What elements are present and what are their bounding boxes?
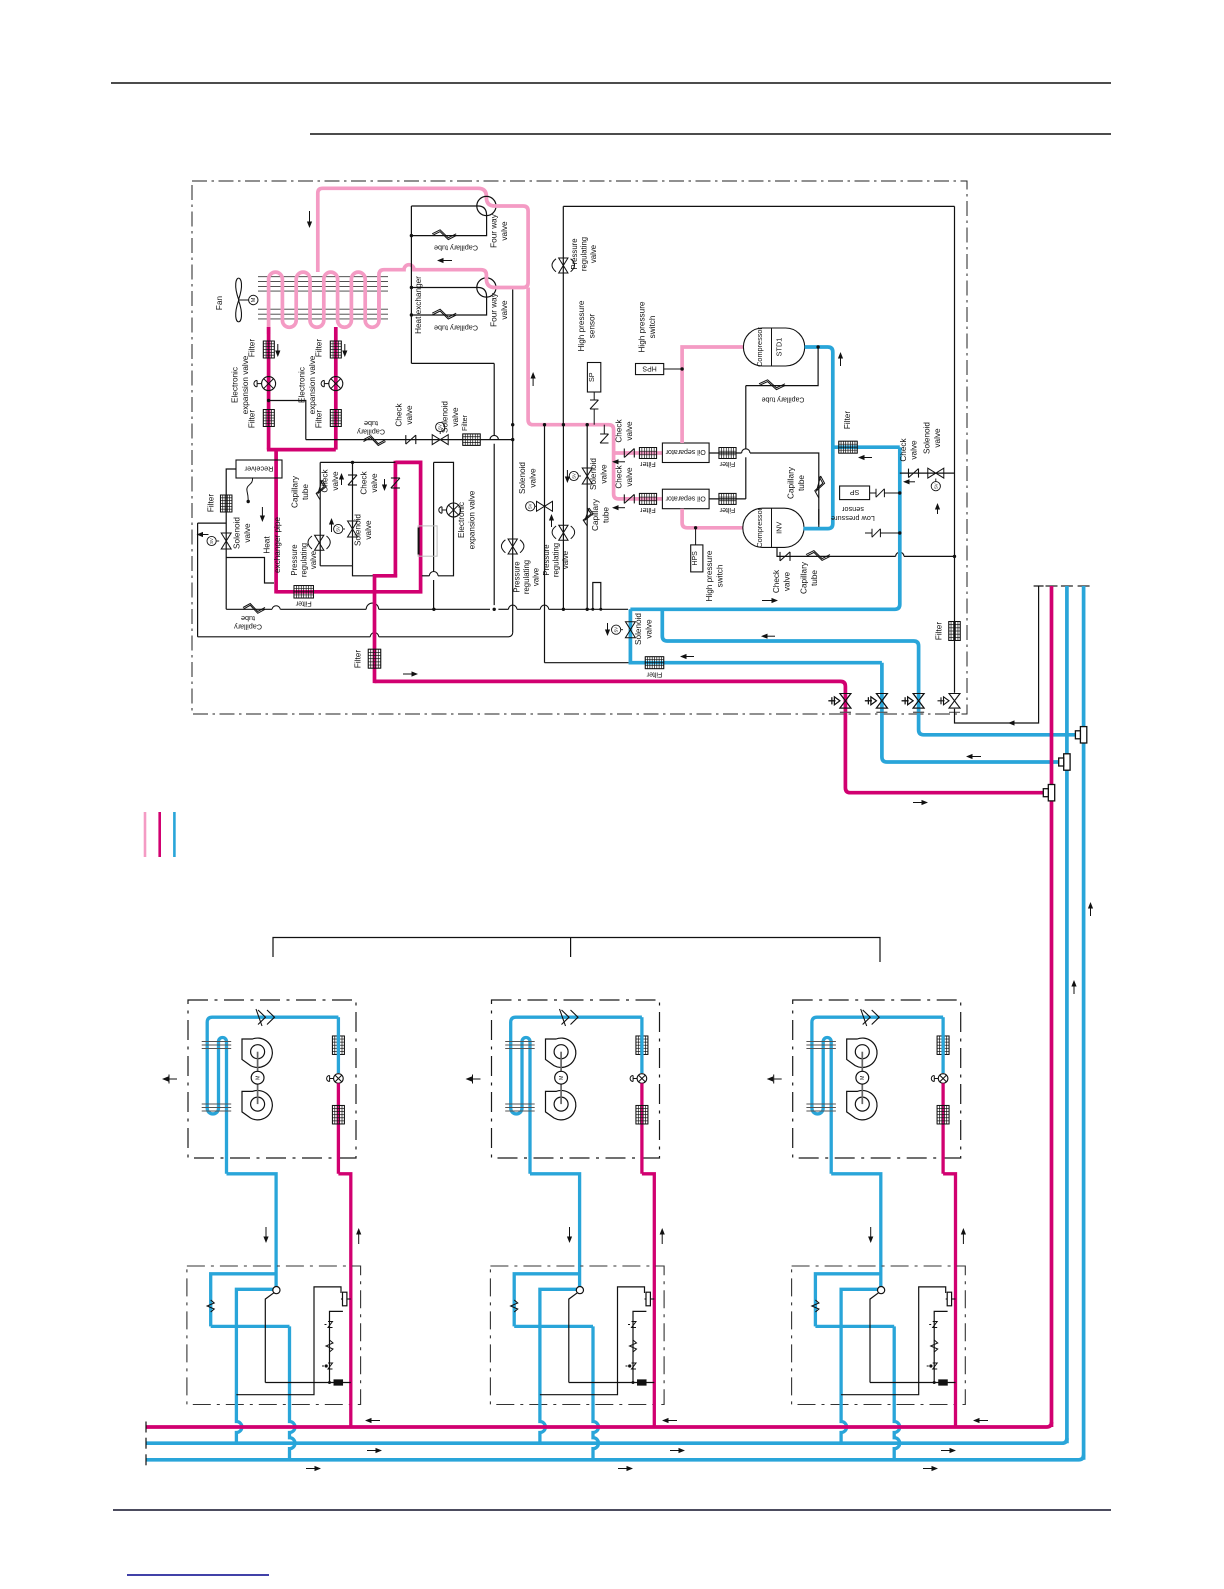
branch cyan left loop xyxy=(211,1274,276,1327)
subcool heat exchanger plate xyxy=(418,526,437,556)
svg-text:switch: switch xyxy=(716,564,725,587)
indoor fan 1 xyxy=(242,1038,272,1067)
black: equalizer out to riser xyxy=(955,586,1039,723)
svg-text:Compressor: Compressor xyxy=(755,327,764,367)
oil trap stub on suction header xyxy=(593,583,601,610)
indoor filter upper xyxy=(636,1036,648,1055)
branch black: node to left valve column xyxy=(870,1293,879,1383)
receiver pigtail xyxy=(247,478,253,500)
branch node xyxy=(878,1287,885,1294)
cyan: main suction drop xyxy=(630,447,899,609)
cyan: branch B down through valve B xyxy=(882,663,1059,762)
svg-text:STD1: STD1 xyxy=(775,338,784,357)
svg-text:valve: valve xyxy=(910,440,919,460)
filter (branch1 upper) xyxy=(263,341,274,358)
branch cyan drop A to gas bus xyxy=(841,1326,847,1443)
wire: to suction drop xyxy=(411,362,494,364)
indoor filter upper xyxy=(332,1036,344,1055)
arrow left between valves xyxy=(437,258,444,263)
indoor coil (cyan hairpin) xyxy=(511,1017,642,1174)
top rule 2 xyxy=(310,133,1111,135)
indoor cyan drop to EEV xyxy=(941,1017,944,1073)
black: STD1 oil return capillary xyxy=(746,347,818,386)
indoor coil fins xyxy=(505,1041,535,1043)
black top header xyxy=(563,205,954,207)
svg-text:Capillary tube: Capillary tube xyxy=(434,323,478,332)
air flow arrow xyxy=(162,1076,169,1081)
arrows on liquid bus xyxy=(365,1418,372,1423)
indoor filter lower xyxy=(937,1105,949,1124)
indoor expansion valve xyxy=(334,1074,344,1084)
svg-text:valve: valve xyxy=(331,471,340,491)
branch black: node to left valve column xyxy=(265,1293,274,1383)
magenta U: liquid line to check valve 2 xyxy=(276,462,421,591)
high pressure sensor SP box xyxy=(587,363,600,393)
filter after separator 2 xyxy=(719,493,736,504)
indoor expansion valve xyxy=(938,1074,948,1084)
svg-text:valve: valve xyxy=(645,619,654,639)
arrow left bypass xyxy=(903,479,910,484)
capillary vertical to INV discharge xyxy=(815,476,823,498)
branch solenoid glyph 1 xyxy=(628,1324,630,1326)
wire SP to header with fusible link xyxy=(593,392,595,400)
arrow left at receiver SV xyxy=(197,532,204,537)
capillary vertical on that column xyxy=(583,508,591,526)
flow double chevron on indoor inlet xyxy=(256,1009,275,1026)
svg-text:Check: Check xyxy=(395,402,404,426)
heat exchanger fins xyxy=(258,276,388,278)
indoor fan 1 xyxy=(546,1038,576,1067)
indoor filter upper xyxy=(937,1036,949,1055)
svg-text:SV: SV xyxy=(614,627,619,633)
pressure regulating valve 2 xyxy=(559,525,568,533)
svg-text:valve: valve xyxy=(529,468,538,488)
legend magenta xyxy=(158,812,161,857)
svg-text:valve: valve xyxy=(500,221,509,241)
electronic expansion valve (subcool) xyxy=(447,503,461,517)
svg-text:Capillary tube: Capillary tube xyxy=(761,395,804,402)
magenta: liquid line to service valve A xyxy=(375,681,1044,792)
indoor fan 2 xyxy=(242,1090,272,1119)
branch cyan drop A to gas bus xyxy=(540,1326,546,1443)
wire: suction drop x=494.2 xyxy=(493,363,495,435)
capillary tube vertical xyxy=(316,480,324,500)
footer link line xyxy=(127,1574,269,1576)
svg-text:switch: switch xyxy=(648,315,657,338)
svg-text:valve: valve xyxy=(532,568,541,586)
svg-text:Check: Check xyxy=(321,468,330,492)
capillary on branch loop xyxy=(207,1300,214,1312)
arrow left sep2 xyxy=(612,505,619,510)
svg-text:valve: valve xyxy=(364,520,373,540)
arrow right on suction header xyxy=(772,598,779,603)
relief stub on header xyxy=(603,425,605,434)
filter (branch1 lower) xyxy=(263,410,274,427)
cyan: suction branch with solenoid xyxy=(630,609,882,662)
branch cyan drop B to suction bus xyxy=(593,1326,599,1459)
black sub-block top wire xyxy=(320,461,395,463)
pipe: liquid down to receiver line (magenta) xyxy=(274,450,278,594)
cyan riser 1 xyxy=(1065,586,1069,1443)
svg-text:valve: valve xyxy=(500,300,509,320)
svg-text:Filter: Filter xyxy=(354,650,363,668)
indoor filter lower xyxy=(636,1105,648,1124)
arrow down cyan interconnect xyxy=(868,1237,873,1244)
four way valve 1 xyxy=(477,196,496,215)
branch cyan inlet xyxy=(578,1284,581,1287)
svg-text:Fan: Fan xyxy=(215,295,224,310)
branch cyan drop B to suction bus xyxy=(290,1326,296,1459)
arrow up magenta interconnect xyxy=(356,1228,361,1235)
filter on magenta drop xyxy=(368,649,381,668)
arrow up at cyan U xyxy=(838,352,843,359)
black: separator1 row to vertical capillary xyxy=(709,452,742,454)
wire: four way valve 2 S-port column xyxy=(512,290,514,633)
compressor STD1 xyxy=(743,328,804,366)
wire SP2 to suction xyxy=(870,492,876,494)
filter before oil separator 1 xyxy=(639,448,656,459)
wire: valve1 left port xyxy=(411,205,479,207)
branch cyan node link xyxy=(236,1289,273,1326)
pink: STD1 discharge into separator 1 xyxy=(682,347,743,443)
svg-text:expansion valve: expansion valve xyxy=(241,355,250,414)
black: equalizer vertical xyxy=(954,206,956,692)
magenta check valve 2 column xyxy=(394,461,398,578)
svg-text:regulating: regulating xyxy=(580,237,589,271)
svg-text:Filter: Filter xyxy=(248,410,257,428)
oil separator 2 xyxy=(662,489,709,509)
pressure regulating valve on S-port column xyxy=(508,539,517,547)
fusible plug stub 2 xyxy=(865,532,872,534)
indoor fan 2 xyxy=(847,1090,877,1119)
svg-text:expansion valve: expansion valve xyxy=(308,355,317,414)
check valve 1 xyxy=(348,474,357,476)
svg-text:valve: valve xyxy=(561,551,570,569)
air flow arrow xyxy=(767,1076,774,1081)
svg-text:sensor: sensor xyxy=(588,313,597,338)
outdoor unit boundary (dash-dot) xyxy=(192,181,967,714)
svg-text:SV: SV xyxy=(933,483,938,489)
legend cyan xyxy=(173,812,176,857)
arrow down cyan interconnect xyxy=(567,1237,572,1244)
svg-text:tube: tube xyxy=(797,475,806,491)
flow double chevron on indoor inlet xyxy=(560,1009,579,1026)
svg-text:Capillary: Capillary xyxy=(291,475,300,508)
svg-text:regulating: regulating xyxy=(522,560,531,594)
solenoid valve 2 xyxy=(582,468,592,476)
svg-text:High pressure: High pressure xyxy=(577,300,586,351)
svg-text:tube: tube xyxy=(301,484,310,500)
svg-text:Filter: Filter xyxy=(640,460,656,467)
svg-text:valve: valve xyxy=(589,245,598,263)
cyan riser 1 cap xyxy=(1061,585,1073,587)
arrow left sep1 xyxy=(612,459,619,464)
indoor unit boundary xyxy=(793,1000,961,1158)
flow double chevron on indoor inlet xyxy=(861,1009,880,1026)
magenta to filter drop xyxy=(375,576,398,683)
branch cyan left loop xyxy=(514,1274,579,1327)
branch connector to magenta xyxy=(645,1298,655,1300)
indoor coil fins xyxy=(202,1041,232,1043)
svg-text:tube: tube xyxy=(241,614,255,623)
svg-text:regulating: regulating xyxy=(300,543,309,577)
svg-text:Four way: Four way xyxy=(490,213,499,248)
svg-text:Receiver: Receiver xyxy=(244,464,273,473)
svg-text:High pressure: High pressure xyxy=(638,301,647,352)
svg-text:Check: Check xyxy=(615,418,624,442)
electronic expansion valve 1 xyxy=(262,377,276,391)
svg-text:Capillary: Capillary xyxy=(800,561,809,594)
svg-text:Filter: Filter xyxy=(460,414,469,431)
cyan to branch unit xyxy=(831,1174,881,1284)
arrow up on pink header xyxy=(531,372,536,379)
wire: PRV2 column xyxy=(562,425,564,610)
branch connector to magenta xyxy=(946,1298,956,1300)
solenoid valve mid xyxy=(348,521,358,529)
filter after separator 1 xyxy=(719,448,736,459)
indoor coil (cyan hairpin) xyxy=(812,1017,943,1174)
service valve C redraw xyxy=(913,694,924,709)
filter on branch xyxy=(645,657,664,669)
magenta riser xyxy=(1050,586,1054,1427)
svg-text:Heat: Heat xyxy=(263,536,272,554)
indoor coil (cyan hairpin) xyxy=(207,1017,338,1174)
branch valve glyph 2 xyxy=(927,1365,929,1367)
wire: PRV top column xyxy=(562,206,564,424)
cyan: branch tee to valve C xyxy=(662,609,1075,735)
connector fitting liquid xyxy=(1048,785,1054,801)
svg-text:valve: valve xyxy=(370,473,379,493)
connector fitting suction 2 xyxy=(1080,727,1086,743)
indoor magenta to branch unit xyxy=(338,1174,350,1285)
arrow down beside pink drop xyxy=(307,222,312,229)
wire: sub-block bottom xyxy=(320,565,352,567)
svg-text:Capillary: Capillary xyxy=(591,498,600,531)
capillary tube (valve2) xyxy=(432,311,456,319)
heat exchanger coil (pink serpentine) xyxy=(269,272,379,334)
arrow down under receiver xyxy=(260,516,265,523)
svg-text:valve: valve xyxy=(600,464,609,484)
arrow up magenta interconnect xyxy=(961,1228,966,1235)
wire: EEV subcool rectangle xyxy=(434,462,454,575)
black: oil line down to separator 2 row xyxy=(745,386,747,449)
arrow up riser 2 xyxy=(1088,902,1093,909)
filter on equalizer xyxy=(949,622,961,641)
svg-text:valve: valve xyxy=(783,572,792,592)
black: separator2 to filter row xyxy=(709,498,746,500)
svg-text:Solenoid: Solenoid xyxy=(441,401,450,433)
compressor INV xyxy=(743,508,804,547)
solenoid valve hot gas xyxy=(537,501,545,511)
pink: separator 2 to INV compressor xyxy=(682,509,743,528)
branch bracket to indoor units xyxy=(273,938,880,963)
branch cyan drop A to gas bus xyxy=(236,1326,242,1443)
arrow up near PRV xyxy=(329,518,334,525)
svg-text:Heat exchanger: Heat exchanger xyxy=(414,276,423,334)
filter on cyan suction xyxy=(839,441,858,453)
wire: receiver heat exchanger pipe xyxy=(226,558,274,584)
svg-text:valve: valve xyxy=(451,407,460,427)
branch inner valve string xyxy=(633,1311,646,1382)
indoor fan motor xyxy=(560,1052,562,1104)
indoor magenta to branch unit xyxy=(943,1174,955,1285)
branch black right circuit xyxy=(841,1287,946,1395)
arrow left on equalizer xyxy=(1008,720,1015,725)
solenoid valve suction branch xyxy=(625,622,635,630)
legend pink xyxy=(144,812,147,857)
branch solenoid glyph 1 xyxy=(929,1324,931,1326)
gas bus (cyan) xyxy=(146,1438,1067,1443)
branch inner valve string xyxy=(934,1311,947,1382)
svg-text:Pressure: Pressure xyxy=(542,544,551,575)
svg-text:Pressure: Pressure xyxy=(570,238,579,269)
svg-text:Solenoid: Solenoid xyxy=(923,422,932,454)
wire: bypass bottom to EEV mid column xyxy=(198,636,371,638)
branch cyan drop B to suction bus xyxy=(894,1326,900,1459)
svg-text:INV: INV xyxy=(775,522,784,534)
high pressure switch HPS2 xyxy=(691,545,703,572)
branch black bottom to magenta xyxy=(265,1382,351,1384)
svg-text:valve: valve xyxy=(309,551,318,569)
capillary tube (valve1) xyxy=(432,232,456,240)
check valve to oil separator 2 xyxy=(623,494,625,503)
svg-text:M: M xyxy=(860,1075,866,1080)
svg-text:Electronic: Electronic xyxy=(457,502,466,538)
pipe: HX liquid drop 2 (magenta) xyxy=(334,327,338,450)
filter on line xyxy=(463,434,481,446)
cyan: compressor discharge/suction U xyxy=(803,347,832,529)
air flow arrow xyxy=(466,1076,473,1081)
pink jumper between four way valves xyxy=(486,206,528,288)
branch unit boundary xyxy=(490,1266,664,1405)
cyan to branch unit xyxy=(227,1174,277,1284)
pink tee to oil separator row 1 xyxy=(614,451,663,455)
branch node xyxy=(273,1287,280,1294)
branch black right circuit xyxy=(236,1287,341,1395)
wire: check valve 1 column xyxy=(352,462,354,565)
svg-text:Filter: Filter xyxy=(843,411,852,429)
svg-text:Compressor: Compressor xyxy=(755,507,764,547)
svg-text:Solenoid: Solenoid xyxy=(634,613,643,645)
filter on magenta liquid line xyxy=(294,586,314,599)
branch node xyxy=(576,1287,583,1294)
svg-text:sensor: sensor xyxy=(841,505,863,514)
svg-text:Filter: Filter xyxy=(295,599,312,608)
branch valve glyph 2 xyxy=(322,1365,324,1367)
cyan to branch unit xyxy=(530,1174,580,1284)
service valve B redraw xyxy=(876,694,887,709)
suction bus (cyan) xyxy=(146,1455,1084,1460)
wire: check/solenoid/filter line y=439.6 xyxy=(306,439,513,441)
branch solenoid glyph 1 xyxy=(325,1324,327,1326)
solenoid valve xyxy=(432,435,440,445)
arrow up hot gas column xyxy=(549,514,554,521)
strainer solid xyxy=(939,1380,948,1386)
arrow right above magenta liquid out xyxy=(412,671,419,676)
pressure regulating valve (top) xyxy=(559,258,568,266)
svg-text:SV: SV xyxy=(528,503,533,509)
wire: suction header y=609.3 xyxy=(226,608,272,610)
svg-text:Solenoid: Solenoid xyxy=(589,458,598,490)
electronic expansion valve 2 xyxy=(329,377,343,391)
indoor cyan drop to EEV xyxy=(640,1017,643,1073)
service valve C xyxy=(913,694,924,709)
svg-text:HPS: HPS xyxy=(642,364,657,371)
svg-text:Check: Check xyxy=(899,437,908,461)
branch unit boundary xyxy=(187,1266,361,1405)
receiver xyxy=(236,460,282,478)
filter (branch2 lower) xyxy=(330,410,341,427)
svg-text:SV: SV xyxy=(571,473,576,479)
svg-text:Check: Check xyxy=(360,470,369,494)
branch black: node to left valve column xyxy=(569,1293,578,1383)
crossover bumps on suction header xyxy=(272,606,280,610)
arrow down check valve 2 xyxy=(382,485,387,492)
svg-text:valve: valve xyxy=(933,428,942,448)
high pressure switch HPS1 xyxy=(636,364,664,375)
branch cyan node link xyxy=(841,1289,878,1326)
svg-text:Filter: Filter xyxy=(248,339,257,357)
wire: solenoid+capillary column xyxy=(586,425,588,610)
svg-text:Oil separator: Oil separator xyxy=(665,448,706,455)
arrows on gas bus xyxy=(376,1448,383,1453)
arrow down cyan interconnect xyxy=(263,1237,268,1244)
indoor fan 2 xyxy=(546,1090,576,1119)
connector fitting suction 1 xyxy=(1064,754,1070,770)
svg-text:SV: SV xyxy=(209,538,214,544)
liquid bus (magenta) xyxy=(146,1422,1052,1427)
svg-text:Filter: Filter xyxy=(315,410,324,428)
wire: left bypass down xyxy=(197,523,199,637)
svg-text:valve: valve xyxy=(243,523,252,543)
branch capillary glyph xyxy=(630,1340,637,1352)
branch cyan left loop xyxy=(815,1274,880,1327)
svg-text:HPS: HPS xyxy=(692,551,699,566)
strainer solid xyxy=(334,1380,343,1386)
liquid line through branch unit (magenta) xyxy=(653,1285,656,1427)
arrow down at filter2 xyxy=(342,351,347,358)
svg-text:Solenoid: Solenoid xyxy=(518,462,527,494)
wire: tee to check/solenoid line xyxy=(269,401,306,440)
arrow left above suction1 connector xyxy=(966,754,973,759)
svg-text:M: M xyxy=(251,297,257,302)
svg-text:Capillary: Capillary xyxy=(787,466,796,499)
magenta riser cap xyxy=(1046,585,1058,587)
svg-text:regulating: regulating xyxy=(552,543,561,577)
arrow left on branch xyxy=(680,654,687,659)
svg-text:Oil separator: Oil separator xyxy=(665,494,706,501)
arrow up check valve 1 xyxy=(339,473,344,480)
check valve 2 (on magenta) xyxy=(391,477,400,479)
svg-text:Electronic: Electronic xyxy=(298,367,307,403)
pink pipe from top header into coil xyxy=(318,188,495,272)
svg-text:Pressure: Pressure xyxy=(513,561,522,592)
branch capillary glyph xyxy=(326,1340,333,1352)
arrow right above magenta connector xyxy=(922,800,929,805)
fan motor M xyxy=(239,299,249,301)
indoor expansion valve xyxy=(637,1074,647,1084)
strainer solid xyxy=(637,1380,646,1386)
capillary on branch loop xyxy=(812,1300,819,1312)
branch unit boundary xyxy=(792,1266,966,1405)
oil separator 1 xyxy=(662,443,709,463)
solenoid valve (receiver) xyxy=(221,533,231,541)
wire: four way valve E-port riser xyxy=(410,206,412,363)
svg-text:valve: valve xyxy=(405,405,414,425)
liquid line through branch unit (magenta) xyxy=(349,1285,352,1427)
svg-text:Filter: Filter xyxy=(935,622,944,640)
arrow up bypass xyxy=(935,503,940,510)
